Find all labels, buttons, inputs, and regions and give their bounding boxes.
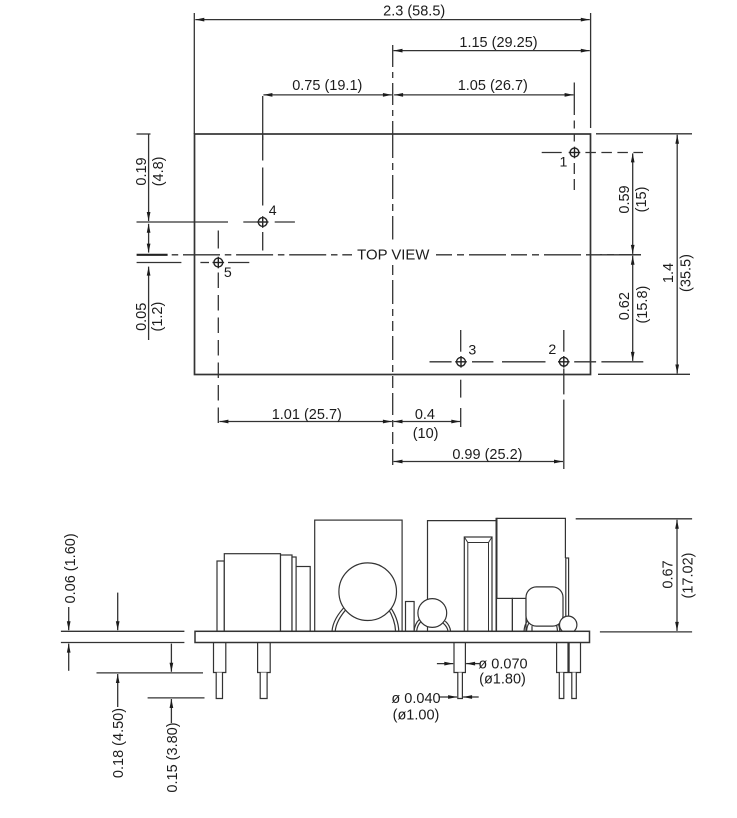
dim 0.06 upper arrow xyxy=(68,607,70,630)
svg-text:0.59: 0.59 xyxy=(617,185,633,213)
component: thin plate D xyxy=(292,557,296,631)
pin 1 column centerline xyxy=(573,83,575,116)
component: tall capacitor xyxy=(464,537,492,631)
pin R2 (fat + thin) xyxy=(569,643,580,673)
dim 0.070 left arrow xyxy=(437,663,453,665)
svg-text:(ø1.00): (ø1.00) xyxy=(393,708,440,724)
component: rounded capacitor xyxy=(526,587,563,626)
svg-text:TOP VIEW: TOP VIEW xyxy=(357,248,429,264)
pin 3 symbol xyxy=(455,356,467,368)
pin 2 column centerline xyxy=(563,330,565,352)
component: capacitor block B (large) xyxy=(224,554,280,632)
module body outline (top view) xyxy=(195,134,591,375)
svg-text:1.05 (26.7): 1.05 (26.7) xyxy=(458,78,528,94)
pin 4 column centerline xyxy=(262,96,264,140)
component: toroid foot left xyxy=(332,606,346,632)
dim 0.19 leader with arrow down to pin4 row xyxy=(148,134,150,221)
component: mid rect 1 xyxy=(497,598,513,631)
svg-text:1: 1 xyxy=(560,155,568,171)
svg-text:(17.02): (17.02) xyxy=(680,553,696,599)
svg-text:3: 3 xyxy=(468,343,476,359)
pin 2-3 row centerline xyxy=(430,361,452,363)
dim line 0.62 xyxy=(632,256,634,361)
dim 0.19 double arrow pin4 row to centerline xyxy=(148,224,150,253)
component: tall capacitor bevel xyxy=(464,537,492,631)
svg-text:0.19: 0.19 xyxy=(134,157,150,185)
pin 5 row centerline xyxy=(137,262,182,264)
pcb board (side view) xyxy=(195,631,590,642)
dim 0.070 right arrow xyxy=(466,663,480,665)
svg-text:(15): (15) xyxy=(634,187,650,213)
dim 0.18 lower arrow xyxy=(117,674,119,707)
left edge extension line up xyxy=(193,13,195,134)
component: block C xyxy=(281,555,293,631)
pin 1 row centerline xyxy=(542,152,562,154)
vertical centerline below outline xyxy=(392,376,394,465)
svg-text:ø 0.070: ø 0.070 xyxy=(478,656,527,672)
svg-text:0.05: 0.05 xyxy=(134,303,150,331)
svg-text:1.4: 1.4 xyxy=(661,263,677,283)
component: small rect beside toroid xyxy=(406,602,415,632)
component: mid rect 2 xyxy=(512,598,526,631)
dim line 0.99 xyxy=(394,461,564,463)
svg-text:5: 5 xyxy=(224,265,232,281)
vertical centerline inside outline xyxy=(392,134,394,240)
pin 4 symbol xyxy=(257,216,269,228)
component: block E xyxy=(296,567,310,632)
dim 0.040 left arrow xyxy=(439,696,457,698)
svg-text:(10): (10) xyxy=(413,426,439,442)
svg-text:(15.8): (15.8) xyxy=(635,286,651,324)
dim line 2.3 xyxy=(195,19,590,21)
pin M (fat + thin) xyxy=(454,643,465,673)
svg-text:0.15 (3.80): 0.15 (3.80) xyxy=(165,722,181,792)
top edge extension right xyxy=(596,133,692,135)
component: toroid foot right xyxy=(390,606,399,631)
component: thin stick xyxy=(566,558,569,625)
component: rounded capacitor legs xyxy=(524,621,560,632)
dim 0.040 right arrow xyxy=(463,696,479,698)
fat pin end extension line xyxy=(97,672,204,674)
thin pin end extension line xyxy=(148,697,205,699)
horizontal centerline left portion xyxy=(172,254,352,256)
centerline extension right xyxy=(600,254,641,256)
pin 5 symbol xyxy=(213,257,225,269)
top edge extension to left xyxy=(137,133,151,135)
svg-text:2: 2 xyxy=(548,342,556,358)
dim line 1.4 xyxy=(676,135,678,374)
pin L2 (fat + thin) xyxy=(258,643,271,673)
vertical centerline above outline xyxy=(392,45,394,134)
svg-text:4: 4 xyxy=(269,203,277,219)
svg-text:(4.8): (4.8) xyxy=(151,156,167,186)
component: outline box xyxy=(428,518,566,631)
svg-text:1.01 (25.7): 1.01 (25.7) xyxy=(272,407,342,423)
component: disc capacitor feet xyxy=(414,619,420,631)
svg-text:0.62: 0.62 xyxy=(617,292,633,320)
horizontal centerline (left thick start segment) xyxy=(137,254,168,256)
right edge extension line up xyxy=(590,13,592,128)
pin R1 (fat + thin) xyxy=(557,643,568,673)
dim 0.15 lower arrow xyxy=(170,699,172,723)
pin 1 symbol xyxy=(569,147,581,159)
dim 0.06 lower arrow xyxy=(68,644,70,671)
svg-text:0.67: 0.67 xyxy=(661,560,677,588)
component: capacitor block A (far left, behind) xyxy=(217,561,224,631)
dim 0.05 arrow up to pin5 row xyxy=(148,267,150,340)
pin 5 column centerline xyxy=(217,231,219,253)
svg-text:(1.2): (1.2) xyxy=(150,302,166,332)
svg-text:ø 0.040: ø 0.040 xyxy=(391,691,440,707)
board top extension line left xyxy=(61,630,184,632)
dim line 0.67 xyxy=(676,520,678,631)
svg-text:2.3 (58.5): 2.3 (58.5) xyxy=(383,4,445,20)
svg-text:0.99 (25.2): 0.99 (25.2) xyxy=(452,447,522,463)
pin L1 (fat + thin) xyxy=(214,643,226,673)
component: toroid circle xyxy=(339,563,397,621)
svg-text:0.75 (19.1): 0.75 (19.1) xyxy=(292,78,362,94)
dim line 0.75 xyxy=(263,94,392,96)
horizontal centerline right portion xyxy=(436,254,641,256)
dim line 1.15 xyxy=(394,50,590,52)
dim line 0.4 xyxy=(394,421,461,423)
svg-text:(35.5): (35.5) xyxy=(679,254,695,292)
svg-text:0.4: 0.4 xyxy=(415,407,435,423)
svg-text:(ø1.80): (ø1.80) xyxy=(479,672,526,688)
pin 3 column centerline xyxy=(460,330,462,352)
pin 2 symbol xyxy=(558,356,570,368)
board top extension line right xyxy=(600,631,692,633)
component: outline box divider xyxy=(496,518,498,632)
pin 4 row centerline xyxy=(137,221,229,223)
component: transformer body xyxy=(315,520,402,631)
component top extension line right xyxy=(576,518,692,520)
dim line 1.05 xyxy=(394,94,573,96)
dim 0.18 upper arrow xyxy=(117,593,119,631)
svg-text:0.18 (4.50): 0.18 (4.50) xyxy=(111,708,127,778)
dim line 0.59 xyxy=(632,153,634,254)
dim line 1.01 xyxy=(219,421,392,423)
component: disc capacitor xyxy=(418,599,447,628)
bottom edge extension right xyxy=(598,373,690,375)
svg-text:0.06 (1.60): 0.06 (1.60) xyxy=(63,533,79,603)
svg-text:1.15 (29.25): 1.15 (29.25) xyxy=(459,35,537,51)
board bottom extension line left xyxy=(61,642,184,644)
component: small disc right xyxy=(560,616,577,633)
dim 0.15 upper arrow xyxy=(170,644,172,672)
